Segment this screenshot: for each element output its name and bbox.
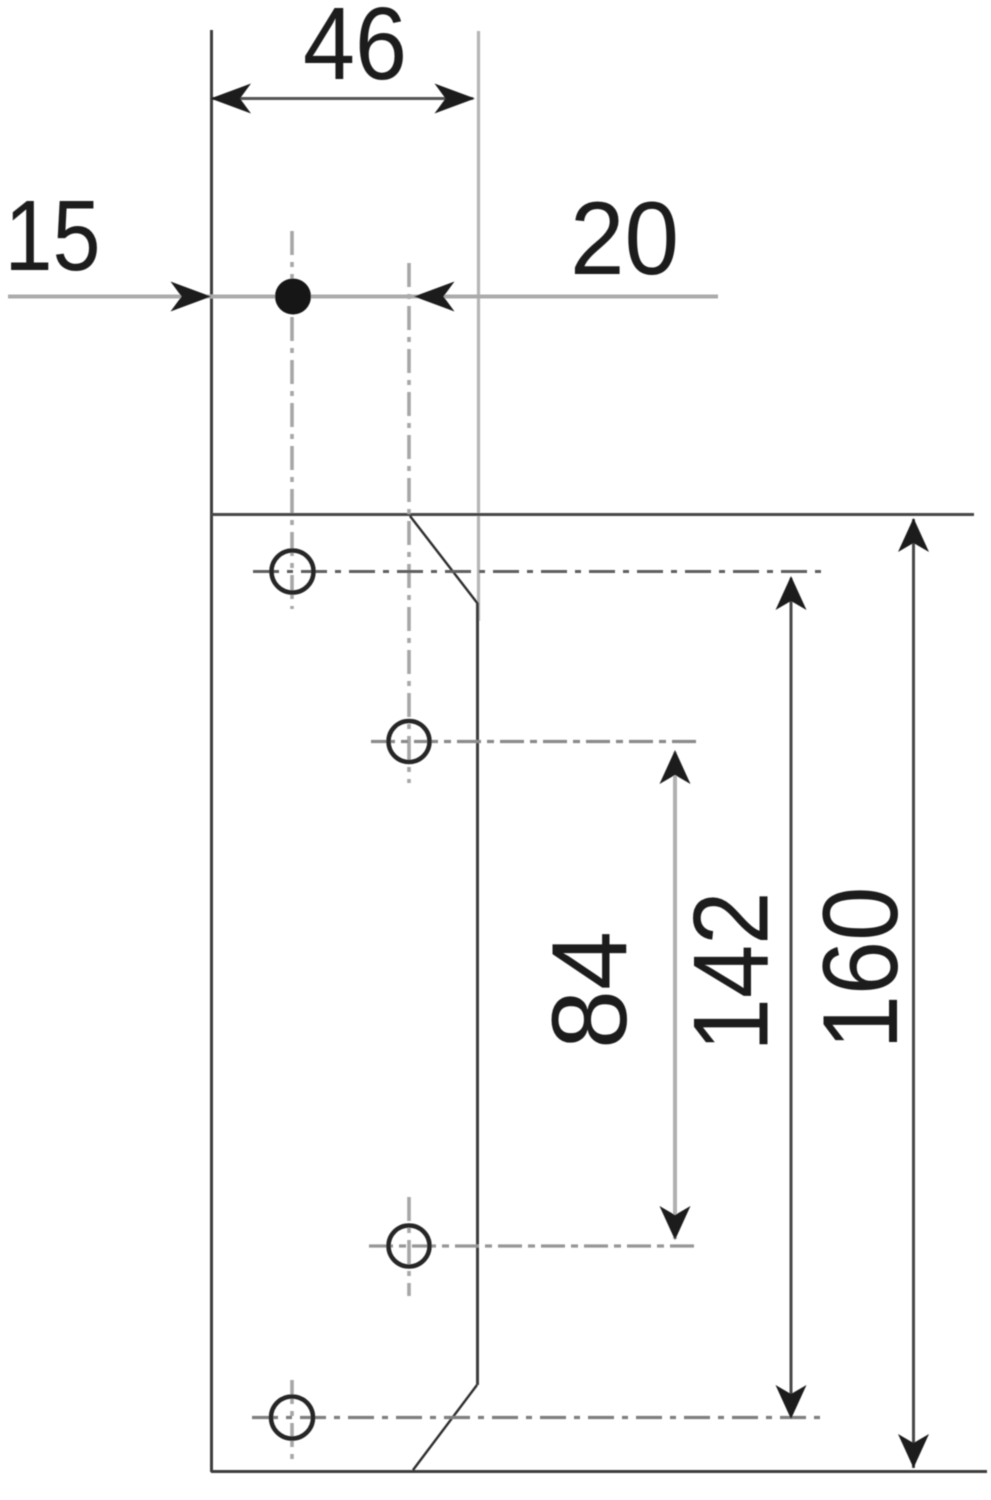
dimension line 46 — [213, 97, 473, 100]
right edge of plate (lower section) — [476, 603, 479, 1385]
svg-text:142: 142 — [671, 892, 791, 1052]
left edge of plate — [210, 30, 213, 1472]
svg-text:84: 84 — [529, 931, 649, 1049]
arrowhead of dim 15 (pointing right at plate edge) — [171, 282, 212, 312]
drill point dot — [275, 279, 311, 315]
arrowhead bottom of dim 160 — [898, 1434, 929, 1468]
svg-text:160: 160 — [800, 887, 920, 1050]
lower break diagonal — [413, 1385, 477, 1470]
leader line for 15 / 20 — [8, 295, 718, 299]
hole 3 — [389, 1226, 430, 1267]
horizontal centerline of hole 2 — [371, 740, 701, 743]
vertical centerline through hole 3 — [407, 1197, 411, 1296]
dimension line 160 — [912, 519, 915, 1468]
hole 2 — [389, 721, 430, 762]
svg-text:20: 20 — [570, 181, 679, 297]
bottom edge of plate — [211, 1470, 987, 1473]
step line (top edge of lower section) — [211, 513, 974, 516]
right edge extension line (gray) — [477, 31, 480, 621]
arrowhead top of dim 160 — [898, 518, 929, 552]
arrowhead bottom of dim 84 — [660, 1206, 691, 1240]
vertical centerline through hole 2 — [407, 263, 411, 783]
dimension line 84 (gray) — [673, 752, 677, 1239]
vertical centerline through hole 4 — [290, 1380, 294, 1462]
arrowhead bottom of dim 142 — [776, 1385, 807, 1419]
hole 1 — [272, 551, 314, 593]
arrowhead of dim 20 (pointing left at centerline) — [414, 282, 455, 312]
svg-text:15: 15 — [5, 180, 101, 292]
horizontal centerline of hole 1 — [253, 570, 825, 573]
svg-text:46: 46 — [303, 0, 407, 101]
horizontal centerline of hole 3 — [369, 1244, 700, 1247]
vertical centerline through hole 1 — [290, 231, 294, 609]
dimension line 142 — [790, 578, 793, 1417]
arrowhead left of dim 46 — [211, 84, 252, 114]
arrowhead right of dim 46 — [435, 84, 476, 114]
arrowhead top of dim 84 — [660, 750, 691, 784]
horizontal centerline of hole 4 — [252, 1416, 825, 1419]
upper break diagonal — [410, 516, 478, 604]
arrowhead top of dim 142 — [776, 576, 807, 610]
hole 4 — [271, 1397, 313, 1439]
